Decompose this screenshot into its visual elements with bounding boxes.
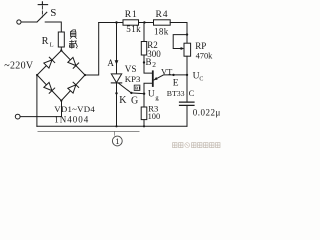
svg-text:51k: 51k	[126, 24, 141, 34]
capacitor C plates	[180, 101, 195, 103]
node dot K on rail	[115, 125, 117, 127]
UJT emitter wire	[154, 75, 187, 80]
UJT B1 wire	[144, 83, 152, 94]
RP wiper arm	[173, 35, 187, 49]
callout underline	[38, 130, 140, 132]
wire Ug to R3	[143, 94, 145, 107]
node dot RP wiper tie	[186, 33, 188, 35]
resistor R2 drop wire	[143, 23, 145, 42]
node dot E	[172, 74, 174, 76]
wire terminal to switch hinge	[21, 21, 37, 23]
svg-text:G: G	[131, 95, 138, 106]
diode VD4 lower-right (arrow toward right vertex)	[68, 82, 79, 93]
diode VD1 upper-left (arrow toward top vertex)	[44, 57, 55, 68]
svg-text:R4: R4	[156, 9, 169, 20]
node dot bridge right vertex	[84, 74, 86, 76]
node dot G	[130, 92, 132, 94]
switch S actuator dashed	[41, 6, 43, 17]
svg-text:1: 1	[115, 136, 119, 146]
node dot bridge top vertex	[60, 49, 62, 51]
diode VD2 upper-right (arrow toward right vertex)	[68, 57, 79, 68]
node dot R1/R2/R4 junction	[143, 21, 145, 23]
resistor R2 box	[141, 42, 146, 56]
current arrow on anode wire	[115, 60, 119, 64]
svg-text:100: 100	[148, 112, 161, 121]
svg-text:0.022μ: 0.022μ	[193, 108, 221, 118]
svg-text:U: U	[148, 90, 155, 100]
diode VD3 lower-left (arrow toward bottom vertex)	[44, 82, 55, 93]
resistor RL box	[58, 32, 64, 47]
hanzi 负 (load char 1)	[70, 30, 77, 39]
AC terminal bottom-left	[15, 114, 20, 119]
hanzi 载 (load char 2)	[69, 40, 78, 49]
svg-text:2: 2	[152, 60, 156, 69]
cathode wire K	[116, 83, 118, 126]
svg-text:18k: 18k	[154, 27, 169, 37]
AC terminal top-left	[17, 20, 21, 24]
wire RL to bridge top vertex	[60, 47, 62, 51]
wire AC terminal to bridge bottom vertex	[20, 101, 61, 117]
node dot Ug	[143, 93, 145, 95]
wire R1 to R4	[139, 22, 154, 24]
svg-text:RP: RP	[195, 41, 206, 51]
wire bridge right vertex to riser	[85, 23, 99, 76]
RP wiper arrowhead	[181, 47, 185, 50]
switch S actuator T-bar	[38, 4, 47, 6]
svg-text:R: R	[42, 36, 49, 47]
svg-text:VD1~VD4: VD1~VD4	[54, 104, 95, 114]
bridge diamond outline	[37, 51, 85, 101]
top supply wire left segment	[99, 22, 123, 24]
resistor R3 box	[141, 107, 147, 120]
UJT VT base bar	[152, 71, 154, 86]
wire R3 to ground rail	[143, 120, 145, 127]
resistor R1 box	[123, 20, 139, 25]
svg-text:KP3: KP3	[125, 74, 141, 84]
svg-text:VT: VT	[161, 66, 173, 76]
node dot bridge left vertex	[36, 74, 38, 76]
svg-text:A: A	[107, 58, 114, 68]
potentiometer RP box	[186, 35, 188, 44]
svg-text:L: L	[50, 41, 54, 48]
wire R2 to UJT B2	[144, 55, 152, 73]
svg-text:470k: 470k	[196, 51, 214, 60]
ground rail bottom wire	[37, 125, 187, 127]
boxed label B1	[134, 85, 141, 90]
node dot E junction on right riser	[186, 74, 188, 76]
SCR anode wire A	[116, 23, 118, 74]
svg-text:1N4004: 1N4004	[54, 115, 89, 125]
gate wire G	[119, 83, 144, 93]
node dot A tap	[115, 21, 117, 23]
wire bridge left vertex down to ground rail	[36, 75, 38, 126]
svg-text:C: C	[189, 88, 195, 98]
thyristor cathode bar	[111, 82, 121, 84]
circled figure number 1	[112, 136, 122, 146]
wire C to ground rail	[186, 105, 188, 126]
svg-text:K: K	[119, 95, 127, 106]
svg-text:B1: B1	[135, 86, 141, 91]
svg-text:B: B	[146, 57, 152, 67]
svg-text:VS: VS	[125, 64, 137, 74]
UJT emitter arrowhead	[154, 77, 158, 80]
watermark pseudo-hanzi	[173, 143, 220, 148]
svg-text:BT33: BT33	[167, 89, 185, 98]
node dot B2	[143, 61, 145, 63]
node dot K	[115, 92, 117, 94]
svg-text:~220V: ~220V	[4, 61, 34, 72]
svg-text:C: C	[199, 76, 203, 82]
top wire R4 to right corner	[170, 23, 187, 35]
node dot bridge bottom vertex	[60, 100, 62, 102]
svg-text:g: g	[155, 94, 159, 101]
svg-text:E: E	[173, 78, 179, 88]
resistor R4 box	[154, 20, 171, 25]
node dot R3 on rail	[143, 125, 145, 127]
svg-text:S: S	[50, 7, 56, 19]
wire RP bottom to capacitor	[186, 56, 188, 102]
svg-text:R1: R1	[125, 9, 138, 20]
switch S blade	[37, 12, 47, 22]
thyristor VS triangle	[111, 74, 121, 83]
wire switch to load corner	[45, 22, 61, 32]
